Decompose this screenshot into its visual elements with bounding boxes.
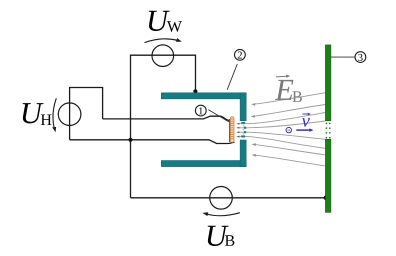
field line S1 arrowhead xyxy=(236,123,239,125)
cathode heater coil core xyxy=(229,119,231,142)
anode plate upper xyxy=(325,45,331,121)
cathode coil windings xyxy=(230,117,234,143)
label circle 1 (cathode) xyxy=(195,105,206,116)
Wehnelt cylinder right wall lower xyxy=(240,140,246,167)
field line S2 arrowhead xyxy=(236,127,239,129)
aperture inner pink dashes xyxy=(243,125,245,138)
anode aperture dots xyxy=(326,122,331,138)
label v with vector arrow xyxy=(302,112,311,132)
voltage source U_H xyxy=(58,103,81,126)
field line B arrowhead xyxy=(251,115,255,118)
U_B rotation arrow xyxy=(205,213,240,216)
field line A (anode to Wehnelt, upper outer) xyxy=(255,93,326,104)
field line S3 (through slit, lower inner) xyxy=(240,132,326,139)
U_H rotation arrow xyxy=(53,98,56,129)
field line S3 arrowhead xyxy=(236,131,239,133)
wire U_W loop: left vertical, top run, right drop to Wehnelt xyxy=(131,55,196,198)
field line S1 (through slit, upper outer) xyxy=(240,113,326,124)
label U_H xyxy=(20,96,44,130)
svg-text:W: W xyxy=(167,19,183,36)
svg-text:2: 2 xyxy=(237,51,242,62)
electron symbol xyxy=(286,127,291,132)
wire upper heater lead xyxy=(103,116,230,120)
label circle 2 (Wehnelt cylinder) xyxy=(235,49,246,60)
label 1 pointer xyxy=(208,110,229,122)
voltage source U_W xyxy=(152,45,174,67)
U_W rotation arrow xyxy=(145,39,179,43)
velocity arrow xyxy=(296,129,309,131)
Wehnelt cylinder right wall upper xyxy=(240,93,246,121)
field line A arrowhead xyxy=(251,103,255,106)
label 2 pointer xyxy=(227,64,237,90)
junction dot cathode common xyxy=(128,138,132,142)
svg-text:B: B xyxy=(292,89,303,106)
field line C (lower mid) xyxy=(255,145,326,155)
field line D (lower outer) xyxy=(255,155,326,166)
voltage source U_B xyxy=(210,187,233,210)
Wehnelt cylinder top bar xyxy=(161,93,246,99)
field line B (upper mid) xyxy=(254,105,326,117)
junction dot at anode xyxy=(324,195,329,200)
label U_B xyxy=(205,219,229,253)
label circle 3 (anode) xyxy=(355,52,366,63)
label U_W xyxy=(146,4,170,38)
label E_B with vector arrow xyxy=(274,73,294,107)
junction dot at Wehnelt feed xyxy=(193,89,197,93)
svg-text:H: H xyxy=(40,112,52,129)
field line D arrowhead xyxy=(252,154,256,157)
field line C arrowhead xyxy=(252,143,256,146)
wire U_H upper branch xyxy=(70,88,103,140)
Wehnelt cylinder bottom bar xyxy=(161,161,246,167)
field line S4 arrowhead xyxy=(236,136,239,138)
wire lower heater lead xyxy=(70,140,235,144)
svg-text:3: 3 xyxy=(358,53,363,64)
Wehnelt aperture dashes xyxy=(241,122,246,138)
anode plate lower xyxy=(325,139,331,212)
wire bottom run to anode xyxy=(131,197,327,199)
svg-text:1: 1 xyxy=(198,106,203,117)
svg-text:B: B xyxy=(225,233,236,250)
field line S2 (through slit, upper inner) xyxy=(240,121,326,128)
label 3 pointer xyxy=(331,56,355,58)
field line S4 (through slit, lower outer) xyxy=(240,137,326,149)
